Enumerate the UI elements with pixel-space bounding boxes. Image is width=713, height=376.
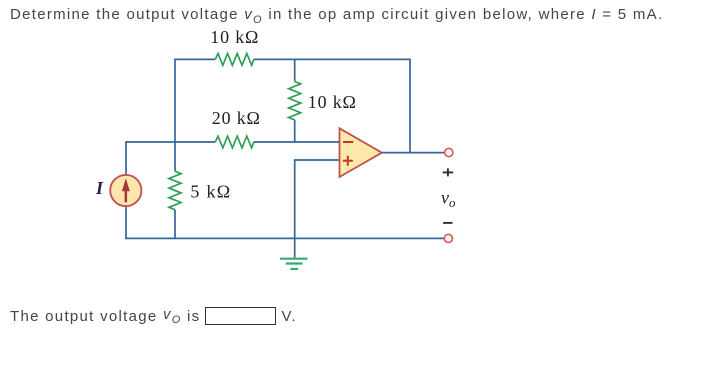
wire 10k R3 top lead from top wire — [294, 59, 296, 81]
label plus polarity — [443, 168, 454, 176]
wire top-left to 10k R1 left lead — [175, 58, 215, 60]
title text — [10, 6, 663, 26]
wire R3 bottom lead to inverting node — [294, 120, 296, 142]
wire op-amp noninverting input — [295, 160, 340, 238]
wire feedback vertical down to output node — [409, 59, 411, 153]
wire op-amp output — [382, 152, 445, 154]
svg-text:vo: vo — [441, 187, 456, 210]
current source I circle — [110, 175, 141, 206]
current source arrow — [122, 178, 130, 202]
resistor R4 5k vertical zigzag — [169, 171, 181, 210]
wire R1 right lead to top-right corner — [254, 58, 410, 60]
wire left vertical upper segment — [174, 59, 176, 172]
svg-text:10 kΩ: 10 kΩ — [210, 27, 259, 47]
svg-text:10 kΩ: 10 kΩ — [308, 92, 357, 112]
resistor R3 10k vertical zigzag — [289, 82, 301, 120]
wire current source bottom lead — [125, 206, 127, 238]
op-amp minus pin mark — [343, 141, 353, 143]
resistor R2 20k zigzag — [215, 136, 254, 148]
svg-text:I: I — [95, 178, 104, 198]
op-amp plus pin mark — [343, 156, 353, 166]
svg-text:5 kΩ: 5 kΩ — [190, 181, 231, 201]
wire middle horizontal to op-amp inverting input — [254, 141, 340, 143]
wire left vertical lower segment — [174, 210, 176, 239]
wire middle horizontal left of 20k — [126, 141, 215, 143]
resistor R1 10k top zigzag — [215, 54, 254, 66]
label minus polarity — [443, 222, 452, 224]
ground symbol — [280, 259, 308, 269]
wire bottom horizontal — [125, 237, 444, 239]
terminal node vo- — [444, 234, 452, 242]
op-amp U1 triangle — [340, 128, 382, 177]
wire current source top lead — [125, 141, 127, 175]
answer line with input box — [10, 306, 297, 326]
svg-text:20 kΩ: 20 kΩ — [212, 108, 261, 128]
terminal node vo+ — [445, 148, 453, 156]
wire ground stub — [294, 238, 296, 257]
